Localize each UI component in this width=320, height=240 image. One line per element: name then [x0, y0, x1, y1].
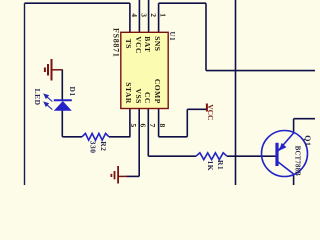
svg-text:8: 8	[158, 124, 167, 128]
svg-text:U1: U1	[168, 32, 176, 42]
svg-text:1: 1	[158, 13, 167, 17]
svg-text:VCC: VCC	[134, 36, 143, 54]
svg-text:7: 7	[148, 124, 157, 128]
svg-text:VCC: VCC	[206, 104, 215, 120]
svg-text:FS8871: FS8871	[112, 28, 121, 58]
svg-text:LED: LED	[33, 89, 42, 106]
svg-text:CC: CC	[143, 92, 152, 104]
svg-text:3: 3	[139, 13, 148, 17]
svg-text:330: 330	[89, 141, 98, 154]
svg-text:COMP: COMP	[153, 79, 162, 104]
svg-text:D1: D1	[68, 87, 77, 97]
svg-text:R2: R2	[99, 141, 108, 151]
svg-text:2: 2	[149, 13, 158, 17]
svg-text:1K: 1K	[206, 161, 215, 172]
svg-text:SNS: SNS	[153, 36, 162, 51]
svg-text:TS: TS	[124, 39, 133, 49]
svg-text:6: 6	[138, 124, 147, 128]
svg-text:R1: R1	[216, 160, 225, 170]
svg-text:Q1: Q1	[303, 135, 312, 146]
svg-text:STAR: STAR	[124, 82, 133, 104]
svg-text:4: 4	[130, 13, 139, 17]
svg-text:5: 5	[129, 124, 138, 128]
svg-text:VSS: VSS	[134, 89, 143, 104]
svg-text:BCT788B: BCT788B	[293, 146, 300, 176]
svg-text:BAT: BAT	[143, 36, 152, 52]
